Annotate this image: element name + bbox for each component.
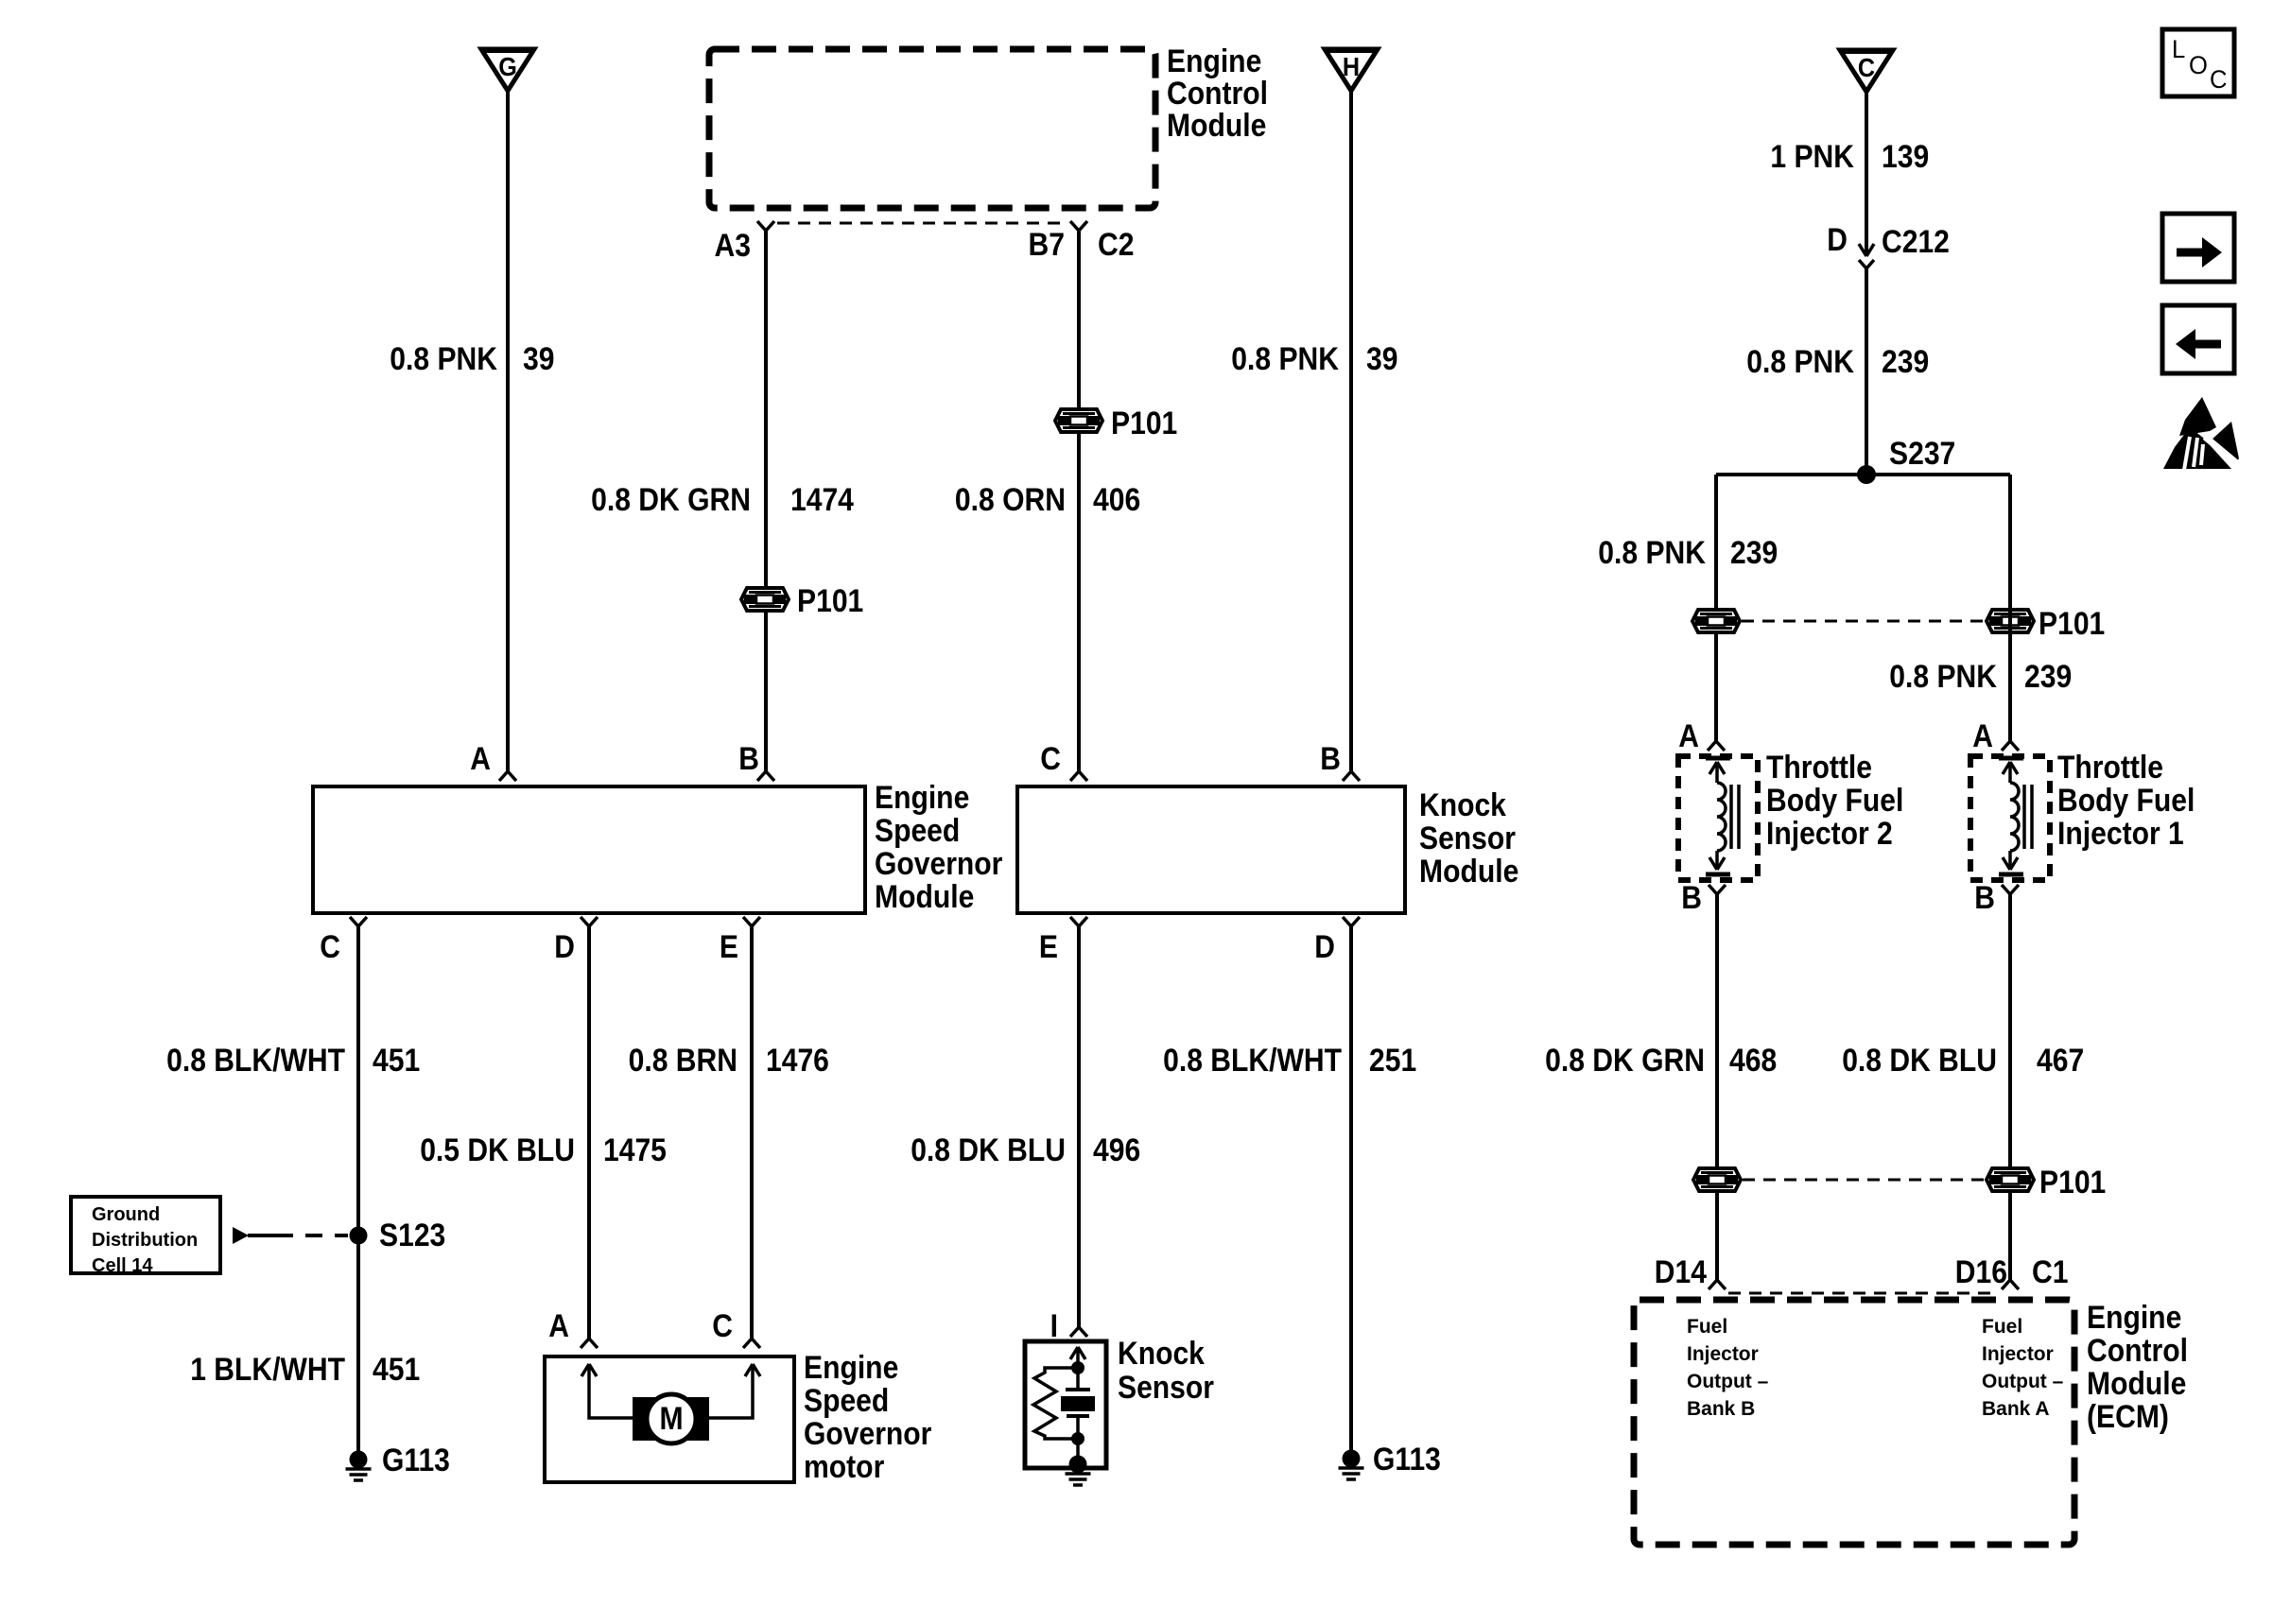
wire label 0.8 PNK 239 right branch [1889, 659, 2072, 695]
wire label 0.8 PNK 239 [1746, 344, 1929, 380]
svg-text:0.8 BLK/WHT: 0.8 BLK/WHT [166, 1043, 345, 1079]
svg-text:(ECM): (ECM) [2087, 1399, 2169, 1435]
inline connector C212 [1859, 224, 1950, 268]
svg-text:Fuel: Fuel [1982, 1316, 2022, 1338]
svg-text:Governor: Governor [804, 1416, 931, 1452]
svg-text:E: E [1039, 929, 1058, 965]
wire pin D to G113 right [1343, 917, 1360, 1459]
svg-text:G113: G113 [1373, 1442, 1441, 1477]
knock sensor module label [1419, 787, 1518, 890]
svg-text:Fuel: Fuel [1687, 1316, 1727, 1338]
svg-text:A: A [1678, 718, 1699, 754]
wire label 0.8 DK BLU 496 [911, 1132, 1140, 1168]
wire label 0.5 DK BLU 1475 [420, 1132, 667, 1168]
pin C label knock module [1040, 741, 1061, 777]
pin D14 label [1655, 1254, 1707, 1290]
svg-text:0.8 PNK: 0.8 PNK [1889, 659, 1997, 695]
engine speed governor module label [875, 780, 1002, 915]
svg-text:C1: C1 [2032, 1254, 2069, 1290]
svg-text:Body Fuel: Body Fuel [1766, 783, 1903, 819]
pin A3 label [715, 228, 752, 264]
svg-text:O: O [2189, 51, 2208, 79]
dashed reference arrow to S123 [233, 1227, 348, 1244]
grommet P101 on C2 wire [1055, 406, 1177, 441]
wire label 0.8 BLK/WHT 251 [1163, 1043, 1416, 1079]
svg-text:B: B [738, 741, 759, 777]
svg-text:C: C [1858, 53, 1875, 82]
pin C2 label [1098, 227, 1135, 263]
ground G113 right [1339, 1442, 1441, 1479]
svg-text:0.8 DK GRN: 0.8 DK GRN [591, 482, 751, 518]
svg-text:Module: Module [1167, 108, 1266, 144]
svg-text:Module: Module [875, 879, 974, 915]
svg-text:Output –: Output – [1982, 1371, 2064, 1392]
svg-text:1476: 1476 [766, 1043, 829, 1079]
svg-text:C: C [712, 1308, 733, 1344]
engine speed governor motor M1 [545, 1356, 794, 1482]
svg-text:239: 239 [1882, 344, 1929, 380]
svg-text:B: B [1681, 880, 1702, 916]
LOC legend icon [2162, 29, 2234, 96]
svg-text:0.8 PNK: 0.8 PNK [1231, 341, 1339, 377]
svg-text:P101: P101 [797, 583, 863, 619]
injector 1 pin B label [1974, 880, 1995, 916]
svg-text:451: 451 [373, 1352, 420, 1388]
svg-text:M: M [659, 1401, 683, 1437]
svg-text:motor: motor [804, 1449, 884, 1485]
svg-text:C: C [1040, 741, 1061, 777]
svg-text:467: 467 [2037, 1043, 2084, 1079]
svg-text:1474: 1474 [790, 482, 854, 518]
engine control module ECM label [2087, 1300, 2188, 1435]
svg-text:0.8 PNK: 0.8 PNK [390, 341, 497, 377]
svg-text:Engine: Engine [1167, 43, 1261, 79]
wire pin C to G113 [350, 917, 367, 1460]
svg-text:P101: P101 [2039, 606, 2105, 642]
svg-text:C2: C2 [1098, 227, 1135, 263]
svg-text:1 PNK: 1 PNK [1770, 139, 1854, 175]
svg-text:S237: S237 [1889, 436, 1955, 472]
svg-text:239: 239 [2024, 659, 2072, 695]
fuel injector output bank B label [1687, 1316, 1769, 1420]
svg-text:Output –: Output – [1687, 1371, 1769, 1392]
dashed pin link D14-D16 [1728, 1292, 1999, 1295]
svg-text:Engine: Engine [875, 780, 969, 816]
knock sensor label [1118, 1336, 1214, 1406]
svg-text:0.5 DK BLU: 0.5 DK BLU [420, 1132, 575, 1168]
wire C212 to S237 [1865, 268, 1868, 475]
svg-text:451: 451 [373, 1043, 420, 1079]
grommet P101 pair upper [1692, 606, 2105, 642]
injector 2 pin B label [1681, 880, 1702, 916]
wire label 0.8 PNK 239 left branch [1598, 535, 1778, 571]
injector 2 pin A label [1678, 718, 1699, 754]
wire label 0.8 BLK/WHT 451 [166, 1043, 420, 1079]
pin B label knock module [1320, 741, 1341, 777]
wire label 0.8 BRN 1476 [629, 1043, 829, 1079]
svg-text:L: L [2172, 35, 2185, 63]
svg-text:C212: C212 [1882, 224, 1950, 260]
connector triangle H [1325, 49, 1378, 91]
svg-text:Knock: Knock [1118, 1336, 1205, 1372]
svg-text:1 BLK/WHT: 1 BLK/WHT [190, 1352, 345, 1388]
engine control module ECM (bottom, dashed) [1634, 1300, 2074, 1545]
svg-text:Engine: Engine [2087, 1300, 2181, 1336]
svg-text:Sensor: Sensor [1118, 1370, 1214, 1406]
connector triangle G [481, 49, 534, 91]
dashed pin link A3-B7 [777, 222, 1067, 225]
next-page arrow icon [2162, 214, 2234, 282]
svg-text:G: G [498, 52, 517, 81]
wire label 0.8 PNK 39 right [1231, 341, 1397, 377]
svg-text:Cell 14: Cell 14 [92, 1255, 153, 1276]
pin E label [720, 929, 738, 965]
svg-text:A3: A3 [715, 228, 752, 264]
svg-text:C: C [320, 929, 340, 965]
svg-text:E: E [720, 929, 738, 965]
svg-text:A: A [470, 741, 491, 777]
motor pin A label [548, 1308, 569, 1344]
engine speed governor module U1 [313, 786, 865, 913]
svg-text:D14: D14 [1655, 1254, 1707, 1290]
pin E label knock module [1039, 929, 1058, 965]
svg-text:P101: P101 [2039, 1165, 2106, 1201]
svg-text:0.8 DK BLU: 0.8 DK BLU [911, 1132, 1066, 1168]
pin B label [738, 741, 759, 777]
svg-text:0.8 BLK/WHT: 0.8 BLK/WHT [1163, 1043, 1342, 1079]
pin D label [554, 929, 575, 965]
wire injector 1 to D16/C1 [2002, 885, 2019, 1289]
throttle body fuel injector 1 [1970, 756, 2050, 880]
svg-text:Distribution: Distribution [92, 1230, 198, 1251]
svg-text:I: I [1050, 1308, 1058, 1344]
svg-text:D: D [1314, 929, 1335, 965]
svg-text:P101: P101 [1111, 406, 1177, 441]
wire injector 2 to D14 [1709, 885, 1726, 1289]
svg-text:Ground: Ground [92, 1204, 160, 1225]
previous-page arrow icon [2162, 305, 2234, 373]
svg-text:Injector: Injector [1982, 1343, 2054, 1365]
svg-text:39: 39 [1366, 341, 1398, 377]
wire label 0.8 ORN 406 [955, 482, 1140, 518]
svg-text:B: B [1974, 880, 1995, 916]
svg-text:239: 239 [1730, 535, 1778, 571]
grommet P101 on A3 wire [741, 583, 863, 619]
pin C label [320, 929, 340, 965]
throttle body fuel injector 2 label [1766, 750, 1903, 852]
ground distribution cell 14 box [71, 1197, 220, 1276]
wire label 0.8 DK GRN 1474 [591, 482, 854, 518]
fuel injector output bank A label [1982, 1316, 2064, 1420]
pin D16 label [1955, 1254, 2007, 1290]
svg-text:D: D [1827, 222, 1848, 258]
knock sensor module U2 [1017, 786, 1405, 913]
svg-text:0.8 ORN: 0.8 ORN [955, 482, 1066, 518]
pin D label C212 [1827, 222, 1848, 258]
svg-text:A: A [548, 1308, 569, 1344]
svg-text:Control: Control [2087, 1333, 2188, 1369]
svg-text:Control: Control [1167, 76, 1268, 112]
svg-text:139: 139 [1882, 139, 1929, 175]
wire pin E to knock sensor [1070, 917, 1087, 1337]
svg-text:Injector: Injector [1687, 1343, 1759, 1365]
motor pin C label [712, 1308, 733, 1344]
wire pin E to motor C [743, 917, 760, 1348]
splice S123 [350, 1218, 446, 1253]
svg-text:0.8 PNK: 0.8 PNK [1746, 344, 1854, 380]
svg-text:Bank B: Bank B [1687, 1398, 1755, 1420]
wire C to C212 [1865, 92, 1868, 255]
knock sensor ground [1066, 1456, 1091, 1486]
svg-text:Governor: Governor [875, 846, 1002, 882]
wire label 0.8 DK GRN 468 [1545, 1043, 1777, 1079]
svg-text:Knock: Knock [1419, 787, 1506, 823]
svg-text:Throttle: Throttle [2057, 750, 2163, 786]
connector triangle C [1840, 50, 1893, 92]
pin I label [1050, 1308, 1058, 1344]
svg-text:Body Fuel: Body Fuel [2057, 783, 2195, 819]
svg-text:G113: G113 [382, 1443, 450, 1478]
wire pin D to motor A [581, 917, 598, 1348]
svg-text:Bank A: Bank A [1982, 1398, 2050, 1420]
svg-text:Engine: Engine [804, 1350, 898, 1386]
svg-text:H: H [1343, 52, 1360, 81]
splice S237 [1716, 436, 2010, 484]
injector 1 pin A label [1972, 718, 1993, 754]
svg-text:Injector 1: Injector 1 [2057, 816, 2184, 852]
wire S237 to injector 1 [2002, 475, 2019, 751]
knock sensor B1 [1025, 1341, 1106, 1468]
ground G113 left [346, 1443, 450, 1480]
svg-text:0.8 BRN: 0.8 BRN [629, 1043, 737, 1079]
svg-text:D: D [554, 929, 575, 965]
wire label 1 PNK 139 [1770, 139, 1929, 175]
pin B7 label [1029, 227, 1066, 263]
svg-text:S123: S123 [379, 1218, 445, 1253]
pin C1 label [2032, 1254, 2069, 1290]
svg-text:Sensor: Sensor [1419, 821, 1516, 856]
engine control module (top, dashed) [709, 49, 1155, 208]
wire label 1 BLK/WHT 451 [190, 1352, 420, 1388]
ESD sensitivity symbol [2163, 397, 2239, 470]
svg-text:A: A [1972, 718, 1993, 754]
wire H to pin B knock module [1343, 91, 1360, 781]
pin D label knock module [1314, 929, 1335, 965]
svg-text:251: 251 [1369, 1043, 1416, 1079]
wire G to pin A [499, 91, 516, 781]
svg-text:C: C [2210, 65, 2228, 94]
engine control module label [1167, 43, 1268, 144]
svg-text:Injector 2: Injector 2 [1766, 816, 1893, 852]
wire label 0.8 DK BLU 467 [1842, 1043, 2084, 1079]
svg-text:0.8 PNK: 0.8 PNK [1598, 535, 1706, 571]
pin A label [470, 741, 491, 777]
svg-text:Module: Module [2087, 1366, 2186, 1402]
svg-text:Speed: Speed [875, 813, 960, 849]
engine speed governor motor label [804, 1350, 931, 1485]
wire S237 to injector 2 [1708, 475, 1725, 751]
svg-text:468: 468 [1729, 1043, 1777, 1079]
svg-text:B7: B7 [1029, 227, 1066, 263]
grommet P101 pair lower [1693, 1165, 2106, 1201]
svg-text:Throttle: Throttle [1766, 750, 1872, 786]
svg-text:406: 406 [1093, 482, 1140, 518]
svg-text:0.8 DK BLU: 0.8 DK BLU [1842, 1043, 1997, 1079]
svg-text:496: 496 [1093, 1132, 1140, 1168]
svg-text:D16: D16 [1955, 1254, 2007, 1290]
svg-text:Module: Module [1419, 854, 1518, 890]
throttle body fuel injector 2 [1678, 756, 1758, 880]
svg-text:0.8 DK GRN: 0.8 DK GRN [1545, 1043, 1705, 1079]
svg-text:1475: 1475 [603, 1132, 667, 1168]
svg-text:B: B [1320, 741, 1341, 777]
svg-text:39: 39 [523, 341, 555, 377]
throttle body fuel injector 1 label [2057, 750, 2195, 852]
wire B7/C2 to pin C [1070, 221, 1087, 781]
wire A3 to pin B [757, 221, 774, 781]
wire label 0.8 PNK 39 [390, 341, 554, 377]
svg-text:Speed: Speed [804, 1383, 889, 1419]
